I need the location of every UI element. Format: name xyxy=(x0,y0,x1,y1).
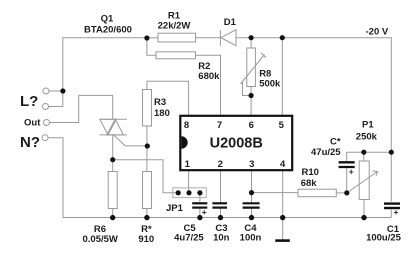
wire C1 bottom to rail xyxy=(390,210,392,218)
label -20V xyxy=(366,26,389,37)
pin number 3 xyxy=(249,159,254,170)
wire R8 wiper tie xyxy=(243,82,252,96)
svg-text:500k: 500k xyxy=(259,79,281,90)
diode D1 xyxy=(220,30,236,46)
ground xyxy=(275,239,290,242)
label C4 xyxy=(244,223,257,234)
label P1 xyxy=(362,120,374,131)
svg-text:R10: R10 xyxy=(302,167,319,178)
IC U2008B pin-1 notch xyxy=(182,136,188,148)
IC U2008B body xyxy=(180,116,292,170)
svg-text:U2008B: U2008B xyxy=(210,135,263,151)
label 100u/25 xyxy=(366,232,402,243)
svg-text:10n: 10n xyxy=(213,232,230,243)
node P1 top junction xyxy=(361,150,366,155)
label 180 xyxy=(154,108,170,119)
svg-text:R*: R* xyxy=(141,224,152,235)
wire C* top to P1 rail xyxy=(347,152,392,161)
svg-text:D1: D1 xyxy=(224,17,237,28)
terminal N xyxy=(42,135,48,141)
wire Out terminal to triac MT2 xyxy=(50,95,113,122)
trimmer R8 xyxy=(241,48,267,87)
wire pin 3 node to R10 xyxy=(252,192,299,194)
wire pin 2 to C3 xyxy=(220,171,222,203)
capacitor Cstar xyxy=(339,162,355,176)
pin number 5 xyxy=(279,120,285,131)
pin number 7 xyxy=(217,120,222,131)
svg-text:BTA20/600: BTA20/600 xyxy=(84,25,132,36)
label BTA20/600 xyxy=(84,25,132,36)
svg-text:100u/25: 100u/25 xyxy=(366,232,402,243)
label D1 xyxy=(224,17,237,28)
label 250k xyxy=(356,131,378,142)
wire R3 bottom to R* top xyxy=(146,126,148,172)
node C5 bottom rail xyxy=(197,215,202,220)
node gate R3 junction xyxy=(145,143,150,148)
node D1-R8 junction xyxy=(249,35,254,40)
svg-text:910: 910 xyxy=(138,234,154,245)
resistor R1 xyxy=(158,33,196,42)
label R* xyxy=(141,224,152,235)
wire C* bottom to wiper node xyxy=(346,168,348,193)
capacitor C1 xyxy=(384,204,400,217)
label N? xyxy=(20,134,40,151)
svg-text:47u/25: 47u/25 xyxy=(311,147,341,158)
wire triac MT1 down to gate node xyxy=(112,135,114,172)
node R1-R2 junction xyxy=(144,35,149,40)
wire pin 1 to JP1 pin2 xyxy=(188,171,190,193)
svg-text:680k: 680k xyxy=(198,71,220,82)
wire R3 top to pin 8 xyxy=(147,81,189,115)
svg-text:22k/2W: 22k/2W xyxy=(158,20,191,31)
svg-text:Q1: Q1 xyxy=(101,14,114,25)
node R8 top pin3 junction xyxy=(249,190,254,195)
wire top rail left xyxy=(63,38,158,107)
label R2 xyxy=(198,61,210,72)
wire N terminal down to bottom rail xyxy=(48,138,391,218)
label C3 xyxy=(215,223,227,234)
svg-text:+: + xyxy=(202,207,207,217)
pin number 2 xyxy=(218,159,223,170)
node right rail junction xyxy=(389,150,394,155)
label 47u/25 xyxy=(311,147,341,158)
svg-text:0.05/5W: 0.05/5W xyxy=(83,234,118,245)
label R1 xyxy=(168,11,181,22)
node R10 Cstar wiper junction xyxy=(344,190,349,195)
wire R2 right to pin 7 xyxy=(196,55,221,115)
capacitor C5 xyxy=(192,203,207,217)
svg-text:5: 5 xyxy=(279,120,285,131)
svg-text:2: 2 xyxy=(218,159,223,170)
svg-text:6: 6 xyxy=(249,120,254,131)
wire P1 bottom to rail xyxy=(363,200,365,218)
svg-text:4: 4 xyxy=(280,159,286,170)
wire L bottom terminal xyxy=(49,106,63,108)
label 680k xyxy=(198,71,220,82)
wire P1 top xyxy=(363,152,365,161)
svg-text:250k: 250k xyxy=(356,131,378,142)
wire R* bottom to rail xyxy=(146,209,148,218)
wire L top terminal xyxy=(49,90,63,92)
svg-text:+: + xyxy=(349,167,354,177)
wire triac gate diagonal xyxy=(114,135,148,146)
node Rstar bottom rail xyxy=(144,215,149,220)
capacitor C3 xyxy=(212,203,227,207)
potentiometer P1 xyxy=(347,161,378,200)
label 22k/2W xyxy=(158,20,191,31)
node R6 bottom rail xyxy=(110,215,115,220)
svg-text:100n: 100n xyxy=(240,232,262,243)
svg-text:C*: C* xyxy=(330,137,341,148)
wire pin 3 to C4 xyxy=(251,171,253,203)
node P1 bottom rail xyxy=(361,215,366,220)
label 100n xyxy=(240,232,262,243)
svg-text:4u7/25: 4u7/25 xyxy=(174,232,204,243)
label 68k xyxy=(301,178,318,189)
jumper JP1 pin 2 xyxy=(186,190,191,195)
svg-text:P1: P1 xyxy=(362,120,374,131)
label 500k xyxy=(259,79,281,90)
wire node to pin 5 xyxy=(281,38,283,115)
svg-text:-20 V: -20 V xyxy=(366,26,389,37)
label C5 xyxy=(184,223,197,234)
label U2008B xyxy=(210,135,263,151)
node C4 bottom rail xyxy=(249,215,254,220)
wire D1 cathode to R8 top xyxy=(250,38,252,48)
node pin4 rail junction xyxy=(280,215,285,220)
wire gate rail to JP1 pin1 xyxy=(113,160,178,193)
svg-text:7: 7 xyxy=(217,120,222,131)
svg-text:+: + xyxy=(394,207,399,217)
jumper JP1 pin 1 xyxy=(176,190,181,195)
wire R8 bottom to pin 6 xyxy=(250,87,252,116)
label C1 xyxy=(387,224,400,235)
svg-text:R3: R3 xyxy=(154,97,166,108)
wire R1 junction down to R2 xyxy=(147,38,156,55)
capacitor C4 xyxy=(243,203,260,207)
svg-text:68k: 68k xyxy=(301,178,318,189)
label R8 xyxy=(259,69,271,80)
wire C3 bottom to rail xyxy=(220,208,222,218)
jumper JP1 body xyxy=(173,188,207,198)
resistor R6 xyxy=(108,172,117,209)
terminal Out xyxy=(44,120,50,126)
wire JP1 pin3 to C5 xyxy=(199,193,201,203)
label 4u7/25 xyxy=(174,232,204,243)
label 0.05/5W xyxy=(83,234,118,245)
resistor R2 xyxy=(156,52,196,59)
svg-text:3: 3 xyxy=(249,159,254,170)
pin number 1 xyxy=(185,159,191,170)
resistor R3 xyxy=(143,90,152,127)
node pin5 rail junction xyxy=(280,35,285,40)
svg-text:1: 1 xyxy=(185,159,191,170)
svg-text:N?: N? xyxy=(20,134,40,151)
wire R10 right to wiper node xyxy=(336,192,347,194)
wire top rail right to -20V corner xyxy=(236,38,391,202)
wire R6 bottom to rail xyxy=(112,209,114,218)
label 10n xyxy=(213,232,230,243)
node C3 bottom rail xyxy=(218,215,223,220)
svg-text:8: 8 xyxy=(184,120,189,131)
label C* xyxy=(330,137,341,148)
svg-text:L?: L? xyxy=(20,93,38,110)
resistor Rstar xyxy=(143,172,152,209)
pin number 8 xyxy=(184,120,189,131)
svg-text:180: 180 xyxy=(154,108,170,119)
resistor R10 xyxy=(298,189,336,197)
label R10 xyxy=(302,167,319,178)
wire C4 bottom to rail xyxy=(251,208,253,218)
terminal L pin 2 xyxy=(43,104,49,110)
svg-text:JP1: JP1 xyxy=(166,203,184,214)
terminal L pin 1 xyxy=(43,88,49,94)
label JP1 xyxy=(166,203,184,214)
label R6 xyxy=(94,224,106,235)
label Q1 xyxy=(101,14,114,25)
svg-text:Out: Out xyxy=(24,117,41,128)
wire pin 4 to ground xyxy=(282,171,284,240)
label R3 xyxy=(154,97,166,108)
node R8 bottom junction xyxy=(249,93,254,98)
jumper JP1 pin 3 xyxy=(197,190,202,195)
pin number 6 xyxy=(249,120,254,131)
node triac MT1 junction xyxy=(110,157,115,162)
pin number 4 xyxy=(280,159,286,170)
label 910 xyxy=(138,234,154,245)
wire C5 bottom to rail xyxy=(199,208,201,218)
label L? xyxy=(20,93,38,110)
triac Q1 xyxy=(100,119,128,135)
node L junction xyxy=(60,88,65,93)
label Out xyxy=(24,117,41,128)
wire between R1 and D1 xyxy=(196,37,221,39)
